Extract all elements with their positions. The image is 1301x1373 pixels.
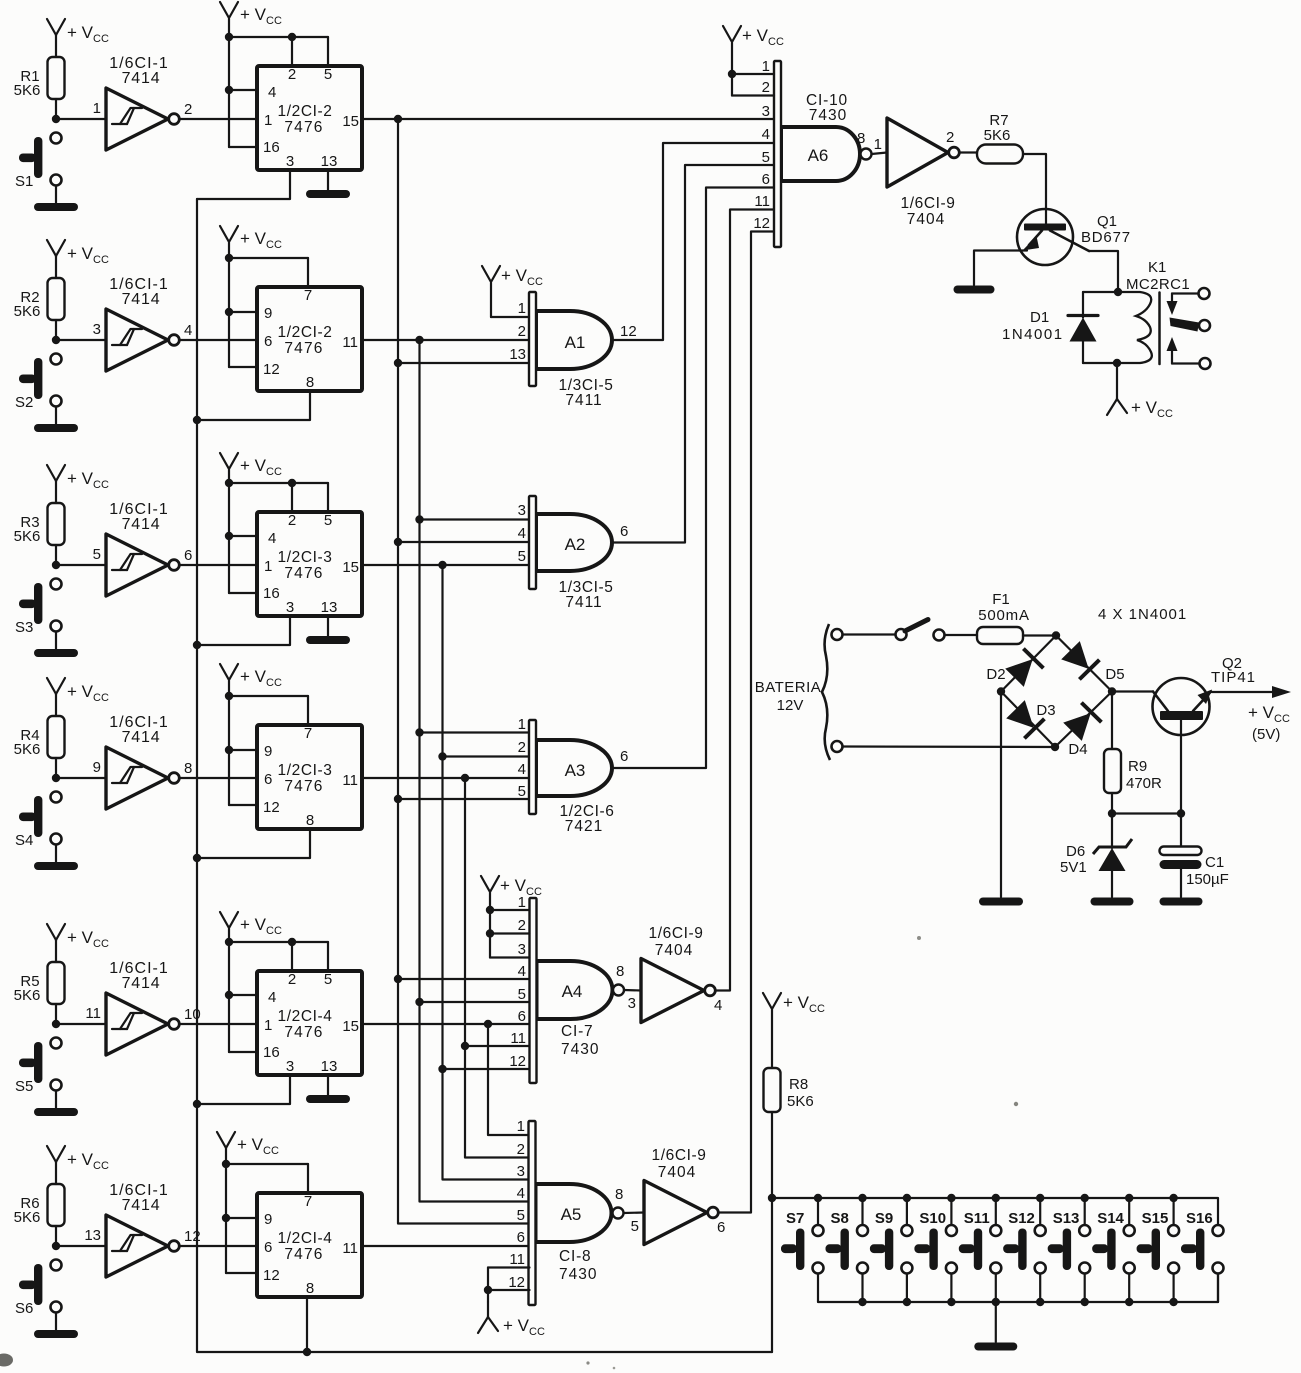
vcc +Vcc (A6 pins 1-2)	[723, 26, 784, 96]
schmitt inverter 1/6CI-1 7414 (row 5) pins 11/10	[85, 960, 200, 1055]
wire S1 to ground	[55, 186, 57, 204]
svg-text:4: 4	[268, 530, 276, 547]
svg-text:5: 5	[517, 1207, 525, 1224]
svg-text:TIP41: TIP41	[1211, 669, 1256, 686]
inverter 1/6CI-9 7404 (after A6)	[874, 118, 960, 228]
svg-text:3: 3	[93, 321, 101, 338]
svg-text:8: 8	[615, 1186, 623, 1203]
svg-text:1/6CI-9: 1/6CI-9	[651, 1147, 706, 1164]
node bus1 / A4 pin4	[394, 975, 402, 983]
wire inverter output row 2 to flip-flop	[180, 339, 257, 341]
wire flip-flop row 2 pin 8 to clear bus	[197, 390, 310, 420]
A5 pin labels	[508, 1118, 525, 1291]
svg-text:1/2CI-3: 1/2CI-3	[277, 549, 332, 566]
svg-text:5K6: 5K6	[984, 127, 1011, 144]
svg-text:7476: 7476	[284, 565, 323, 582]
svg-text:D4: D4	[1068, 741, 1087, 758]
node bus1 / A2 pin4	[394, 538, 402, 546]
relay K1 MC2RC1 coil	[1117, 259, 1190, 364]
resistor R7 5K6	[977, 112, 1023, 164]
switch S14	[1092, 1198, 1135, 1302]
svg-text:BD677: BD677	[1081, 229, 1131, 246]
wire row2 Q (pin11) to A1 pin2	[362, 339, 529, 341]
scan artifact (bottom-left blob)	[0, 1354, 13, 1367]
svg-text:4: 4	[517, 1185, 525, 1202]
wire bus1 tap to A3 pin5	[398, 798, 529, 800]
vcc +Vcc (row 6 pull-up)	[47, 1146, 109, 1184]
svg-text:5: 5	[324, 512, 332, 529]
A1 pin labels	[509, 300, 526, 363]
svg-text:1: 1	[264, 1017, 272, 1034]
node bus3 / A4 pin12	[438, 1065, 446, 1073]
wire A4 to inverter	[624, 989, 641, 992]
switch S5	[15, 1038, 62, 1096]
node keypad bottom bus / S8	[858, 1298, 866, 1306]
switch S2	[15, 354, 62, 412]
flip-flop 1/2CI-2 7476 (row 2)	[257, 287, 362, 391]
node row 3 input	[52, 561, 60, 569]
label 4 X 1N4001	[1098, 606, 1187, 623]
wire R1 / S1 node to inverter input	[56, 99, 106, 119]
wire S5 to ground	[55, 1091, 57, 1109]
svg-text:2: 2	[288, 66, 296, 83]
vcc +Vcc (flip-flop row 5)	[220, 912, 328, 1052]
node row 5 input	[52, 1020, 60, 1028]
svg-text:6: 6	[717, 1219, 725, 1236]
wire R7 to Q1 base	[1023, 154, 1046, 224]
node keypad bottom bus / S11	[992, 1298, 1000, 1306]
ground (S4)	[34, 862, 78, 870]
node keypad top bus / S8	[858, 1194, 866, 1202]
wire battery - to bridge bottom	[843, 745, 1056, 748]
svg-text:4: 4	[184, 322, 192, 339]
wire battery + to power switch	[843, 633, 896, 635]
ground (flip-flop row 3)	[306, 636, 350, 644]
ground (D6)	[1091, 898, 1134, 906]
svg-text:11: 11	[85, 1005, 101, 1022]
svg-text:1/2CI-3: 1/2CI-3	[277, 762, 332, 779]
svg-text:5K6: 5K6	[14, 987, 41, 1004]
node keypad top bus / S15	[1169, 1194, 1177, 1202]
node keypad bottom bus / S14	[1125, 1298, 1133, 1306]
flip-flop 1/2CI-3 7476 (row 3)	[257, 512, 362, 616]
svg-text:7414: 7414	[122, 1197, 161, 1214]
svg-text:5K6: 5K6	[14, 741, 41, 758]
node row4 Q / bus4	[461, 774, 469, 782]
svg-text:470R: 470R	[1126, 775, 1162, 792]
resistor R5 5K6	[14, 962, 65, 1004]
wire Q1 collector to relay node	[1089, 251, 1118, 292]
NAND gate A5 input bar	[529, 1121, 536, 1305]
node bridge left	[997, 687, 1005, 695]
ground (Q1 emitter)	[954, 286, 995, 294]
svg-text:1: 1	[518, 716, 526, 733]
svg-text:7: 7	[304, 1193, 312, 1210]
svg-text:1/2CI-2: 1/2CI-2	[277, 324, 332, 341]
node C1 / Q2 emitter	[1177, 809, 1185, 817]
svg-text:K1: K1	[1148, 259, 1166, 276]
vcc +Vcc (A5 pins 11-12)	[478, 1268, 545, 1339]
svg-text:12: 12	[263, 361, 280, 378]
flip-flop 1/2CI-3 7476 (row 4)	[257, 725, 362, 829]
node keypad bottom bus / S12	[1036, 1298, 1044, 1306]
node keypad bottom bus / S9	[903, 1298, 911, 1306]
wire row6 Q (pin11) to A5 pin6	[362, 1245, 529, 1247]
wire flip-flop row 4 pin 8 to clear bus	[197, 828, 310, 858]
A4 pin labels	[509, 894, 526, 1070]
svg-text:A6: A6	[808, 146, 829, 165]
svg-text:7411: 7411	[565, 594, 602, 611]
svg-text:S10: S10	[919, 1210, 946, 1227]
vcc +Vcc (A1 pin1)	[482, 266, 543, 317]
node bus2 / A3 pin1	[415, 728, 423, 736]
svg-text:3: 3	[762, 103, 770, 120]
ground (flip-flop row 5)	[306, 1095, 350, 1103]
svg-text:6: 6	[264, 771, 272, 788]
wire bus1 tap to A2 pin4	[398, 541, 529, 543]
vcc +Vcc (row 4 pull-up)	[47, 678, 109, 716]
ground (S1)	[34, 203, 78, 211]
A2 label 1/3CI-5 7411	[558, 579, 613, 611]
svg-text:7414: 7414	[122, 291, 161, 308]
resistor R9 470R	[1104, 749, 1162, 793]
wire power switch to F1	[945, 634, 978, 636]
svg-text:(5V): (5V)	[1252, 726, 1280, 743]
svg-text:7430: 7430	[809, 107, 847, 124]
wire bridge right to R9	[1111, 692, 1113, 750]
node row 1 input	[52, 115, 60, 123]
A5 output pin label 8	[615, 1186, 623, 1203]
svg-text:7: 7	[304, 287, 312, 304]
svg-text:3: 3	[286, 599, 294, 616]
node clear bus / row5 pin3	[193, 1100, 201, 1108]
svg-text:S2: S2	[15, 394, 33, 411]
svg-text:11: 11	[754, 193, 770, 210]
wire R5 / S5 node to inverter input	[56, 1004, 106, 1024]
node bridge top	[1052, 631, 1060, 639]
svg-text:7411: 7411	[565, 392, 602, 409]
svg-text:8: 8	[306, 374, 314, 391]
diode D5 (bridge top-right)	[1061, 640, 1125, 683]
diode D4 (bridge bottom-right)	[1063, 703, 1102, 758]
inverter 1/6CI-9 7404 (after A4)	[628, 925, 723, 1023]
node keypad top bus / S9	[903, 1194, 911, 1202]
svg-text:2: 2	[518, 739, 526, 756]
wire S6 to ground	[55, 1313, 57, 1331]
svg-text:5: 5	[93, 546, 101, 563]
svg-text:F1: F1	[992, 591, 1010, 608]
svg-text:S11: S11	[964, 1210, 990, 1227]
vcc +Vcc (row 5 pull-up)	[47, 924, 109, 962]
svg-text:Q1: Q1	[1097, 213, 1117, 230]
svg-text:4: 4	[518, 525, 526, 542]
switch S6	[15, 1260, 62, 1318]
svg-text:7476: 7476	[284, 1024, 323, 1041]
wire inverter output row 3 to flip-flop	[180, 564, 257, 566]
svg-text:7404: 7404	[655, 942, 693, 959]
schmitt inverter 1/6CI-1 7414 (row 1) pins 1/2	[93, 55, 193, 150]
svg-text:6: 6	[264, 1239, 272, 1256]
svg-text:6: 6	[620, 523, 628, 540]
power switch (on-off)	[896, 620, 945, 641]
AND gate A3 input bar	[529, 720, 536, 814]
node bus2 / A2 pin3	[415, 515, 423, 523]
node row 4 input	[52, 774, 60, 782]
node row2 Q / bus2	[415, 336, 423, 344]
svg-text:1/6CI-9: 1/6CI-9	[648, 925, 703, 942]
ground (S3)	[34, 649, 78, 657]
wire flip-flop row 6 pin 8 to clear bus	[306, 1297, 308, 1352]
node bus1 / A1 pin13	[394, 359, 402, 367]
svg-text:7430: 7430	[559, 1266, 597, 1283]
svg-text:11: 11	[510, 1030, 526, 1047]
svg-text:D1: D1	[1030, 309, 1049, 326]
svg-text:1: 1	[264, 558, 272, 575]
svg-text:15: 15	[342, 113, 359, 130]
wire R6 / S6 node to inverter input	[56, 1226, 106, 1246]
wire inverter to R7	[960, 151, 977, 153]
node keypad top bus / S10	[947, 1194, 955, 1202]
switch S3	[15, 579, 62, 637]
schmitt inverter 1/6CI-1 7414 (row 2) pins 3/4	[93, 276, 193, 371]
wire F1 to bridge top	[1023, 634, 1056, 636]
svg-text:6: 6	[762, 171, 770, 188]
svg-text:MC2RC1: MC2RC1	[1126, 276, 1190, 293]
svg-text:4: 4	[714, 997, 722, 1014]
wire Q2 emitter down	[1180, 720, 1182, 814]
svg-text:5K6: 5K6	[787, 1093, 814, 1110]
svg-text:7404: 7404	[907, 211, 945, 228]
svg-text:4: 4	[268, 84, 276, 101]
wire bus5 (row5 Q vertical)	[488, 1024, 529, 1135]
A6 output pin label 8	[857, 130, 865, 147]
svg-text:5: 5	[518, 783, 526, 800]
AND gate A3 1/2CI-6 7421 body	[536, 740, 612, 796]
A3 pin labels	[518, 716, 526, 800]
A4 output pin label 8	[616, 963, 624, 980]
AND gate A1 input bar	[529, 292, 536, 386]
svg-text:D2: D2	[986, 666, 1005, 683]
svg-text:4: 4	[518, 761, 526, 778]
NAND gate A4 CI-7 7430 body	[537, 961, 625, 1019]
wire keypad bottom bus	[818, 1274, 1218, 1302]
svg-text:16: 16	[263, 585, 280, 602]
resistor R4 5K6	[14, 716, 65, 758]
AND gate A2 input bar	[529, 496, 536, 589]
svg-text:11: 11	[342, 1240, 358, 1257]
svg-text:7: 7	[304, 725, 312, 742]
svg-text:5: 5	[324, 971, 332, 988]
wire bridge left to ground	[1000, 692, 1002, 898]
svg-text:D3: D3	[1036, 702, 1055, 719]
ground (S2)	[34, 424, 78, 432]
ground (S5)	[34, 1108, 78, 1116]
switch S12	[1003, 1198, 1045, 1302]
svg-text:5K6: 5K6	[14, 528, 41, 545]
svg-text:A4: A4	[562, 982, 583, 1001]
switch S8	[826, 1198, 869, 1302]
svg-text:9: 9	[264, 1211, 272, 1228]
node keypad top bus / S14	[1125, 1194, 1133, 1202]
svg-text:13: 13	[84, 1227, 101, 1244]
wire inverter output row 1 to flip-flop	[180, 118, 257, 120]
node R9 / D6	[1108, 809, 1116, 817]
svg-text:16: 16	[263, 1044, 280, 1061]
zener diode D6 5V1	[1060, 814, 1132, 898]
NAND gate A6 CI-10 7430 body	[781, 127, 872, 181]
svg-text:13: 13	[321, 1058, 338, 1075]
svg-text:9: 9	[264, 305, 272, 322]
svg-text:D5: D5	[1105, 666, 1124, 683]
node row1 Q / bus1	[394, 115, 402, 123]
diode D3 (bridge bottom-left)	[1006, 699, 1056, 738]
svg-text:5: 5	[762, 149, 770, 166]
A6 label CI-10 7430	[806, 92, 848, 124]
node row 6 input	[52, 1242, 60, 1250]
battery BATERIA 12V brace	[755, 624, 830, 760]
wire A5 inverter output (pin6) to A6 pin12	[719, 232, 774, 1213]
svg-text:S12: S12	[1008, 1210, 1035, 1227]
fuse F1 500mA	[977, 591, 1030, 644]
node bridge right	[1108, 687, 1116, 695]
wire A6 to inverter	[872, 153, 888, 155]
svg-text:12: 12	[620, 323, 637, 340]
wire clear bus (left vertical + bottom run to R8)	[197, 199, 772, 1352]
wire Q2 collector output +Vcc (5V)	[1212, 686, 1291, 743]
A1 output pin label 12	[620, 323, 637, 340]
wire flip-flop row 1 pin 13 to ground	[327, 170, 329, 190]
svg-text:5: 5	[324, 66, 332, 83]
svg-text:1/6CI-9: 1/6CI-9	[900, 195, 955, 212]
svg-text:12: 12	[263, 1267, 280, 1284]
scan speck 4	[1014, 1102, 1018, 1106]
node keypad bottom bus / S13	[1081, 1298, 1089, 1306]
vcc +Vcc (A4 pins 1-2-3)	[481, 876, 542, 958]
node keypad bottom bus / S15	[1169, 1298, 1177, 1306]
svg-text:5: 5	[518, 548, 526, 565]
vcc +Vcc (row 1 pull-up)	[47, 19, 109, 57]
svg-text:1: 1	[517, 1118, 525, 1135]
svg-text:13: 13	[321, 153, 338, 170]
A2 output pin label 6	[620, 523, 628, 540]
wire A3 output (pin6) to A6 pin6	[612, 188, 774, 769]
svg-text:4: 4	[518, 963, 526, 980]
svg-text:CI-8: CI-8	[559, 1248, 591, 1265]
flip-flop 1/2CI-2 7476 (row 1)	[257, 66, 362, 170]
ground (flip-flop row 1)	[306, 190, 350, 198]
svg-text:D6: D6	[1066, 843, 1085, 860]
svg-text:3: 3	[286, 1058, 294, 1075]
svg-text:7414: 7414	[122, 975, 161, 992]
A3 output pin label 6	[620, 748, 628, 765]
svg-text:11: 11	[342, 772, 358, 789]
switch S9	[870, 1198, 913, 1302]
svg-text:1N4001: 1N4001	[1002, 326, 1064, 343]
resistor R2 5K6	[14, 278, 65, 320]
svg-text:12: 12	[753, 215, 770, 232]
A5 label CI-8 7430	[559, 1248, 597, 1283]
wire relay bottom node to +Vcc	[1116, 363, 1118, 399]
svg-text:S8: S8	[831, 1210, 849, 1227]
switch S15	[1137, 1198, 1180, 1302]
wire bus2 tap to A4 pin5	[420, 1001, 530, 1003]
svg-text:7404: 7404	[658, 1164, 696, 1181]
svg-text:5V1: 5V1	[1060, 859, 1087, 876]
svg-text:S7: S7	[786, 1210, 804, 1227]
node clear bus / row2 pin8	[193, 416, 201, 424]
svg-text:A2: A2	[565, 535, 586, 554]
svg-text:7476: 7476	[284, 340, 323, 357]
node bus1 / A3 pin5	[394, 795, 402, 803]
wire R2 / S2 node to inverter input	[56, 320, 106, 340]
label Q2 output	[0, 0, 1, 1]
node keypad top bus / S12	[1036, 1194, 1044, 1202]
transistor Q1 BD677	[1017, 209, 1131, 265]
wire S4 to ground	[55, 845, 57, 863]
battery terminal (+)	[832, 629, 843, 640]
svg-text:12: 12	[263, 799, 280, 816]
wire bus1 (row1 Q vertical)	[398, 119, 529, 1224]
vcc +Vcc (flip-flop row 2)	[220, 226, 308, 367]
node clear bus / row6 pin8	[303, 1348, 311, 1356]
svg-text:2: 2	[518, 323, 526, 340]
wire keypad top bus	[772, 1198, 1218, 1225]
svg-text:4 X 1N4001: 4 X 1N4001	[1098, 606, 1187, 623]
vcc +Vcc (row 3 pull-up)	[47, 465, 109, 503]
wire relay top node to D1	[1083, 291, 1118, 293]
svg-text:8: 8	[306, 812, 314, 829]
wire flip-flop row 1 pin 3 to clear bus	[197, 170, 290, 199]
svg-text:1: 1	[93, 100, 101, 117]
vcc +Vcc (row 2 pull-up)	[47, 240, 109, 278]
svg-text:3: 3	[628, 995, 636, 1012]
svg-text:6: 6	[264, 333, 272, 350]
scan speck 3	[917, 936, 921, 940]
svg-text:3: 3	[517, 1163, 525, 1180]
node row3 Q / bus3	[438, 561, 446, 569]
wire bridge right to Q2 base	[1112, 690, 1153, 692]
wire row3 Q (pin15) to A2 pin5	[362, 564, 529, 566]
svg-text:8: 8	[184, 760, 192, 777]
vcc +Vcc (flip-flop row 3)	[220, 453, 328, 593]
svg-text:8: 8	[616, 963, 624, 980]
svg-text:A1: A1	[565, 333, 586, 352]
node row5 Q / bus5	[484, 1020, 492, 1028]
ground (C1)	[1160, 898, 1203, 906]
wire R9 to D6 node	[1111, 793, 1113, 814]
diode D1 1N4001	[1002, 292, 1098, 363]
node bus2 / A4 pin5	[415, 998, 423, 1006]
wire R3 / S3 node to inverter input	[56, 545, 106, 565]
svg-text:10: 10	[184, 1006, 201, 1023]
svg-text:6: 6	[517, 1229, 525, 1246]
wire S3 to ground	[55, 632, 57, 650]
svg-text:5: 5	[631, 1218, 639, 1235]
schmitt inverter 1/6CI-1 7414 (row 6) pins 13/12	[84, 1182, 200, 1277]
wire A4 inverter output (pin4) to A6 pin11	[716, 210, 774, 991]
svg-text:A5: A5	[561, 1205, 582, 1224]
wire flip-flop row 3 pin 13 to ground	[327, 616, 329, 636]
resistor R8 5K6	[764, 1068, 814, 1112]
svg-text:S9: S9	[875, 1210, 893, 1227]
svg-text:12: 12	[509, 1053, 526, 1070]
NAND gate A4 input bar	[530, 898, 537, 1083]
svg-text:5K6: 5K6	[14, 303, 41, 320]
wire bus3 (row3 Q vertical)	[443, 565, 530, 1180]
vcc +Vcc (R8)	[763, 993, 825, 1068]
svg-text:2: 2	[518, 917, 526, 934]
wire keypad bus to ground	[995, 1302, 997, 1342]
